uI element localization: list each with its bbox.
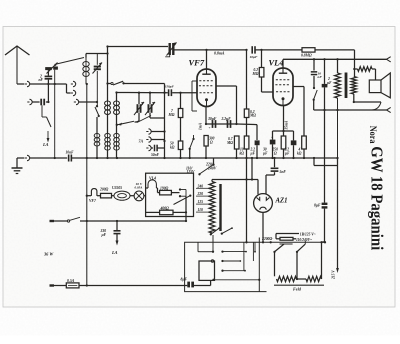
wire mains into box (194, 280, 211, 285)
svg-text:2200Ω-: 2200Ω- (261, 237, 274, 241)
capacitor 30uF b (262, 131, 284, 158)
svg-text:110/240V~: 110/240V~ (296, 238, 312, 242)
svg-text:U3505: U3505 (112, 186, 122, 190)
svg-text:150pF: 150pF (165, 85, 175, 89)
svg-text:+: + (271, 136, 273, 140)
svg-text:nF: nF (318, 75, 323, 79)
antenna (5, 46, 30, 84)
wire x246 lower (245, 158, 247, 242)
wire antenna down to jack (17, 83, 24, 85)
box verticals (244, 242, 254, 270)
svg-text:240V: 240V (207, 167, 217, 171)
svg-text:50nF: 50nF (151, 153, 160, 157)
node ant1 (47, 83, 56, 85)
label VL4 (269, 58, 284, 68)
capacitor 150pF (165, 85, 175, 97)
wire jack to node (30, 83, 67, 85)
svg-text:2.2µF: 2.2µF (221, 117, 232, 121)
capacitor 10uF top (250, 46, 258, 59)
svg-text:VF7: VF7 (89, 199, 96, 203)
switch S1a (95, 105, 100, 117)
wire VF7 anode top (206, 50, 208, 69)
capacitor 2.2uF a (221, 117, 232, 128)
capacitor 2nF (39, 70, 53, 82)
svg-text:nF: nF (39, 78, 44, 82)
wire feld drops (275, 252, 299, 280)
label 220 240V (205, 163, 217, 171)
wire field up (322, 242, 325, 279)
wire selector drop (213, 235, 256, 253)
capacitor 8uF b (314, 110, 327, 243)
svg-text:kΩ: kΩ (240, 151, 245, 155)
rectifier AZ1 cathode (262, 212, 264, 243)
wire bus gnd left (17, 157, 24, 159)
wire top bus mid (173, 49, 248, 51)
svg-text:240: 240 (197, 184, 204, 188)
switch feld b (296, 241, 305, 253)
svg-text:125V: 125V (187, 170, 196, 174)
svg-text:µF: µF (250, 151, 256, 155)
resistor 0.2M a (244, 109, 256, 118)
capacitor 30uF a (207, 117, 217, 130)
wire VL4 top (282, 59, 284, 68)
svg-text:VF7: VF7 (189, 58, 205, 68)
wire speaker bus (314, 109, 387, 111)
wire AVC (117, 92, 197, 94)
wire HT drop x246 (246, 50, 248, 109)
jack A2 (27, 99, 39, 104)
wire trimmer to coil slant (57, 58, 85, 65)
label LA lower (42, 142, 49, 147)
tube VF7 (197, 69, 216, 107)
switch tap selector b (221, 227, 233, 235)
switch heater contacts (179, 188, 186, 197)
svg-text:µF: µF (326, 81, 332, 85)
capacitor 330uF (100, 221, 121, 246)
resistor 0.8M (301, 48, 315, 58)
switch mains (67, 217, 187, 222)
resistor 4k (297, 136, 306, 158)
rectifier AZ1 (254, 194, 273, 213)
wire heater a (87, 195, 101, 197)
svg-text:0.05A: 0.05A (135, 186, 144, 190)
svg-text:Feld: Feld (293, 287, 302, 292)
svg-text:0.8mA: 0.8mA (214, 52, 225, 56)
svg-text:190Ω: 190Ω (160, 186, 169, 190)
wire left col2 down (54, 70, 56, 158)
capacitor 5nF (266, 157, 286, 175)
svg-text:kΩ: kΩ (297, 151, 302, 155)
resistor 190 (160, 186, 172, 195)
svg-text:8µF: 8µF (314, 203, 321, 207)
wire coupling row (206, 123, 257, 140)
wire VF7 cathode (199, 107, 208, 131)
label 110240V (296, 238, 312, 242)
resistor speaker series (355, 67, 376, 80)
feld underline (274, 285, 324, 291)
label tap 220 (197, 192, 204, 196)
switch tap selector a (210, 227, 220, 235)
wire top bus right (255, 49, 302, 51)
label Nora (367, 126, 377, 144)
wire mains switch start (50, 220, 68, 222)
switch tone (313, 76, 318, 110)
antenna coil L1 (83, 58, 89, 85)
transformer mains core (219, 184, 221, 231)
svg-text:Nora: Nora (367, 126, 377, 144)
label tap 240 (197, 184, 204, 188)
label 36W (43, 252, 54, 257)
wire heater exit (185, 196, 187, 221)
svg-text:MΩ: MΩ (252, 72, 259, 76)
capacitor 8uF a (181, 277, 195, 287)
transformer OT primary (335, 59, 341, 158)
wire x164 down (163, 84, 165, 159)
label VF7 (189, 58, 205, 68)
lamp VF7 heater (86, 189, 97, 203)
svg-text:+: + (209, 126, 211, 130)
resistor 0.2M b (252, 50, 264, 77)
resistor 7M (168, 92, 183, 118)
label tap 110 (198, 208, 203, 212)
svg-text:200Ω: 200Ω (99, 188, 109, 192)
switch mains voltage (198, 158, 214, 175)
resistor field 1 (277, 276, 297, 281)
speaker (369, 73, 390, 98)
trimmer C ant (45, 63, 58, 74)
label 1B125V (300, 232, 316, 236)
svg-text:1B/125 V~: 1B/125 V~ (300, 232, 316, 236)
wire top bus far right (315, 50, 355, 69)
switch S1b (106, 81, 164, 85)
wire VF7 grid side (192, 81, 197, 111)
box inner rect (199, 260, 215, 281)
label GW18 Paganini (367, 146, 386, 250)
trimmer C3 (134, 92, 144, 122)
svg-text:5nF: 5nF (280, 170, 287, 174)
jack D2 7A (139, 137, 166, 144)
svg-text:µF: µF (262, 151, 268, 155)
svg-text:Ω: Ω (210, 141, 213, 145)
resistor 300 (204, 136, 215, 159)
svg-text:10µF: 10µF (250, 55, 258, 59)
oscillator coil L2 (94, 117, 100, 158)
wire VL4 anode (293, 87, 304, 137)
jack D3 (146, 145, 153, 150)
svg-text:36 W: 36 W (43, 252, 54, 257)
svg-text:MΩ: MΩ (249, 114, 256, 118)
label 110 125V (186, 166, 195, 174)
svg-text:AZ1: AZ1 (275, 198, 288, 205)
svg-text:µF: µF (284, 151, 290, 155)
svg-text:8µF: 8µF (181, 277, 188, 281)
switch heater arm (174, 194, 192, 204)
wire speaker bottom (354, 102, 381, 110)
lamp dial (130, 182, 146, 201)
resistor 200 (99, 188, 112, 198)
box contact row1 (221, 250, 247, 252)
wire VF7 screen out (216, 86, 237, 124)
capacitor 2.2uF c (284, 131, 297, 158)
svg-text:7A: 7A (139, 140, 144, 144)
wire mains L (79, 284, 187, 286)
wire VL4 grid (262, 77, 274, 92)
transformer OT secondary (351, 68, 356, 103)
svg-text:30µF: 30µF (207, 117, 217, 121)
capacitor 2uF (322, 59, 332, 110)
svg-text:215 V: 215 V (332, 270, 336, 280)
wire bus2 (283, 58, 387, 60)
svg-text:35mA: 35mA (285, 120, 289, 130)
svg-text:VL4: VL4 (269, 58, 284, 68)
wire 215V (332, 158, 339, 280)
label LA bottom (111, 250, 118, 255)
svg-text:10nF: 10nF (66, 151, 75, 155)
tube VL4 (273, 68, 293, 106)
transformer mains winding (209, 180, 258, 234)
jack A3 (74, 99, 97, 104)
antenna jack (25, 81, 30, 86)
capacitor 10nF gnd (66, 151, 75, 162)
switch S1c (116, 121, 137, 126)
arrow LA lower (47, 131, 50, 143)
wire bus gnd a (30, 157, 67, 159)
node A3 join (96, 101, 98, 103)
box voltage selector (185, 238, 327, 292)
resistor 50k (170, 118, 183, 159)
wire coil top bus (86, 52, 109, 57)
svg-text:1mA: 1mA (199, 122, 203, 130)
wire top bus left (106, 45, 168, 47)
resistor 400 (146, 206, 186, 214)
svg-text:MΩ: MΩ (168, 113, 175, 117)
switch S2 (189, 135, 195, 158)
svg-text:0.8MΩ: 0.8MΩ (301, 54, 312, 58)
jack D1 (146, 129, 165, 134)
wire selector sub-rect (198, 242, 214, 253)
wire between field (297, 278, 307, 280)
trimmer C4 (137, 92, 165, 123)
resistor 10k (240, 136, 249, 158)
trimmer C5 padder (165, 42, 176, 56)
wire box row bottom (212, 279, 260, 281)
bracket jacks pair (67, 81, 76, 95)
ground (12, 158, 23, 174)
ballast U3505 (112, 186, 131, 200)
label 0.8mA (214, 52, 225, 56)
wire heater c (171, 192, 179, 194)
wire long left vertical (86, 83, 88, 286)
trimmer C2 (93, 54, 103, 107)
wire node down LW switch (42, 105, 51, 127)
capacitor 2.2uF b (250, 140, 260, 158)
wire antC down (47, 80, 49, 102)
lamp VL4 heater (146, 177, 157, 189)
wire heater b (156, 188, 159, 193)
box heater (146, 173, 194, 216)
resistor 250 (272, 136, 286, 158)
transformer OT core (345, 73, 348, 99)
rectifier AZ1 anode wires (258, 175, 266, 194)
switch feld a (273, 244, 292, 253)
svg-text:220: 220 (197, 192, 204, 196)
resistor 2200 (261, 234, 299, 242)
capacitor 10nF b (311, 59, 323, 79)
svg-text:Ω: Ω (274, 151, 277, 155)
capacitor 50nF (151, 145, 165, 157)
jack phones top (387, 57, 391, 62)
wire y165 right (314, 158, 338, 166)
jack gnd (25, 155, 30, 160)
svg-text:400Ω: 400Ω (160, 206, 170, 210)
svg-text:MΩ: MΩ (226, 141, 233, 145)
svg-text:125: 125 (198, 200, 204, 204)
wire x252 stub (251, 157, 253, 181)
coil column L3 (105, 47, 111, 159)
wire bus gnd main (72, 157, 339, 159)
wire mains L start (50, 284, 67, 286)
jack phones bottom (387, 107, 391, 112)
svg-text:kΩ: kΩ (170, 146, 175, 150)
svg-text:LA: LA (111, 250, 118, 255)
svg-text:VL4: VL4 (149, 177, 156, 181)
capacitor ant2 (41, 99, 49, 106)
box contact row3 (221, 270, 246, 272)
resistor field 2 (306, 276, 322, 281)
svg-text:0.5A: 0.5A (67, 279, 75, 283)
fuse 0.5A (66, 279, 79, 288)
svg-text:LA: LA (42, 142, 49, 147)
svg-text:110: 110 (198, 208, 203, 212)
wire taps (196, 187, 210, 213)
resistor 0.7M (226, 136, 239, 158)
wire VL4 cathode (282, 106, 288, 137)
svg-text:µF: µF (101, 233, 107, 237)
box contact row2 (221, 260, 241, 262)
coil column L4 (114, 91, 120, 158)
label AZ1 (275, 198, 288, 205)
wire x246 mid (246, 118, 248, 137)
svg-text:GW 18 Paganini: GW 18 Paganini (367, 146, 386, 250)
label tap 125 (198, 200, 204, 204)
